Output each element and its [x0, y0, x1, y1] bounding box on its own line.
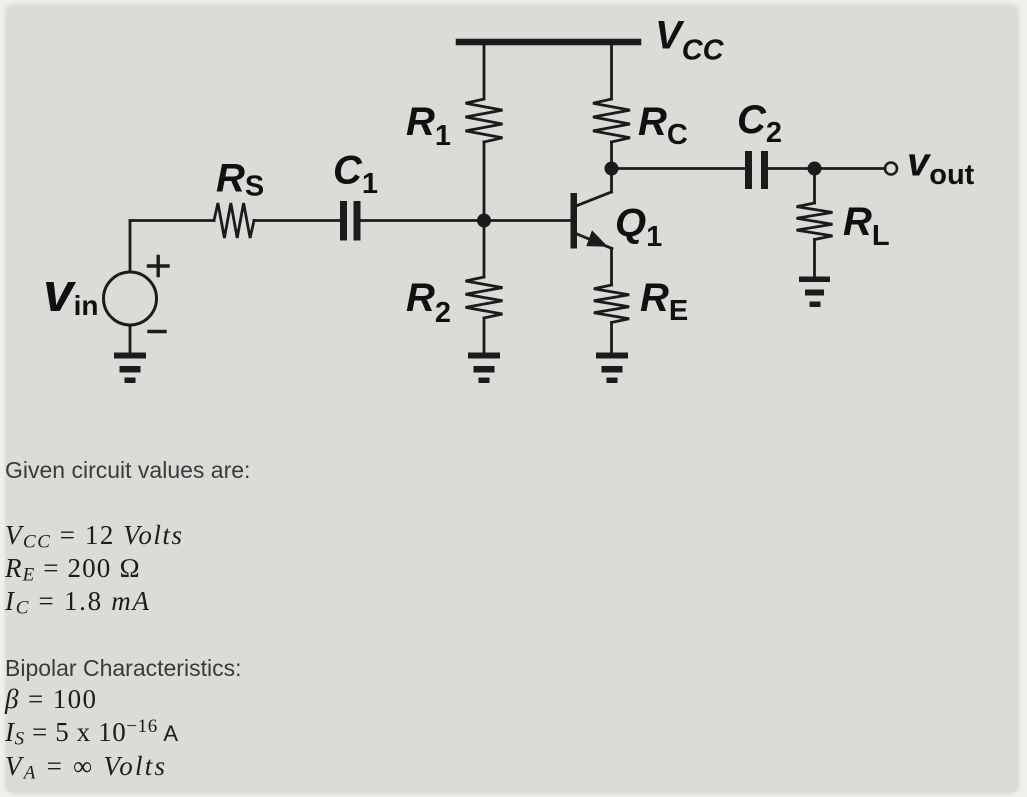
- svg-text:RE = 200 Ω: RE = 200 Ω: [4, 553, 140, 586]
- svg-text:Bipolar Characteristics:: Bipolar Characteristics:: [5, 655, 241, 681]
- svg-text:RS: RS: [216, 157, 264, 203]
- svg-text:VCC: VCC: [655, 14, 725, 67]
- svg-text:β = 100: β = 100: [4, 684, 96, 714]
- svg-text:VCC = 12 Volts: VCC = 12 Volts: [5, 520, 182, 553]
- svg-text:C2: C2: [737, 98, 782, 149]
- svg-text:RE: RE: [640, 276, 688, 327]
- svg-text:RC: RC: [638, 100, 688, 151]
- svg-text:Given circuit values are:: Given circuit values are:: [5, 457, 250, 483]
- svg-text:IC = 1.8 mA: IC = 1.8 mA: [4, 586, 150, 619]
- svg-text:R2: R2: [406, 276, 451, 329]
- svg-text:vin: vin: [43, 261, 98, 323]
- svg-text:Q1: Q1: [615, 201, 662, 253]
- svg-text:R1: R1: [406, 100, 451, 152]
- svg-text:vout: vout: [907, 141, 975, 192]
- svg-text:RL: RL: [843, 200, 890, 252]
- svg-text:IS = 5 x 10−16 A: IS = 5 x 10−16 A: [4, 716, 178, 750]
- svg-text:C1: C1: [333, 149, 378, 201]
- svg-text:VA = ∞ Volts: VA = ∞ Volts: [5, 751, 165, 784]
